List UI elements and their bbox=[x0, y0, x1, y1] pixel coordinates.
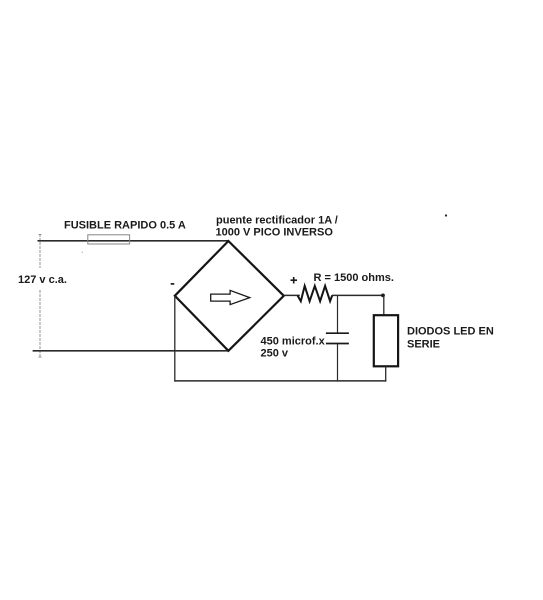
wire bridge minus output down bbox=[174, 296, 176, 382]
svg-text:SERIE: SERIE bbox=[407, 339, 440, 351]
bridge rectifier diamond bbox=[175, 241, 284, 351]
capacitor C top plate bbox=[326, 332, 349, 334]
wire capacitor to bottom rail bbox=[337, 344, 339, 382]
arrow inside bridge bbox=[211, 290, 250, 304]
svg-text:DIODOS LED EN: DIODOS LED EN bbox=[407, 326, 494, 338]
svg-text:1000 V PICO INVERSO: 1000 V PICO INVERSO bbox=[216, 227, 334, 239]
wire LED rectangle bottom to rail bbox=[385, 366, 387, 381]
wire junction to LED rectangle top bbox=[383, 295, 385, 315]
wire junction down to capacitor bbox=[337, 295, 339, 333]
svg-text:250 v: 250 v bbox=[261, 347, 289, 359]
minus terminal mark bbox=[171, 283, 175, 285]
stray dot top right bbox=[445, 214, 447, 216]
fuse F1 bbox=[88, 235, 130, 244]
wire bridge plus output to resistor bbox=[284, 294, 300, 296]
junction node dot bbox=[381, 294, 385, 298]
capacitor C bottom plate bbox=[326, 343, 349, 345]
wire resistor to junction bbox=[332, 294, 383, 296]
svg-text:FUSIBLE RAPIDO 0.5 A: FUSIBLE RAPIDO 0.5 A bbox=[64, 220, 186, 232]
faint speck left bbox=[82, 252, 83, 253]
wire bottom DC rail bbox=[174, 380, 386, 382]
svg-text:R = 1500 ohms.: R = 1500 ohms. bbox=[314, 272, 394, 284]
AC source dashed line (127 v c.a.) bbox=[39, 234, 42, 358]
svg-text:puente rectificador 1A /: puente rectificador 1A / bbox=[216, 214, 338, 226]
svg-text:127 v c.a.: 127 v c.a. bbox=[18, 274, 67, 286]
svg-text:450 microf.x: 450 microf.x bbox=[261, 336, 326, 348]
wire top AC line bbox=[38, 240, 229, 242]
resistor R zigzag bbox=[298, 286, 333, 301]
LED string rectangle (DIODOS LED EN SERIE) bbox=[374, 315, 398, 366]
plus terminal mark bbox=[291, 277, 298, 284]
wire bottom AC line bbox=[33, 350, 229, 352]
